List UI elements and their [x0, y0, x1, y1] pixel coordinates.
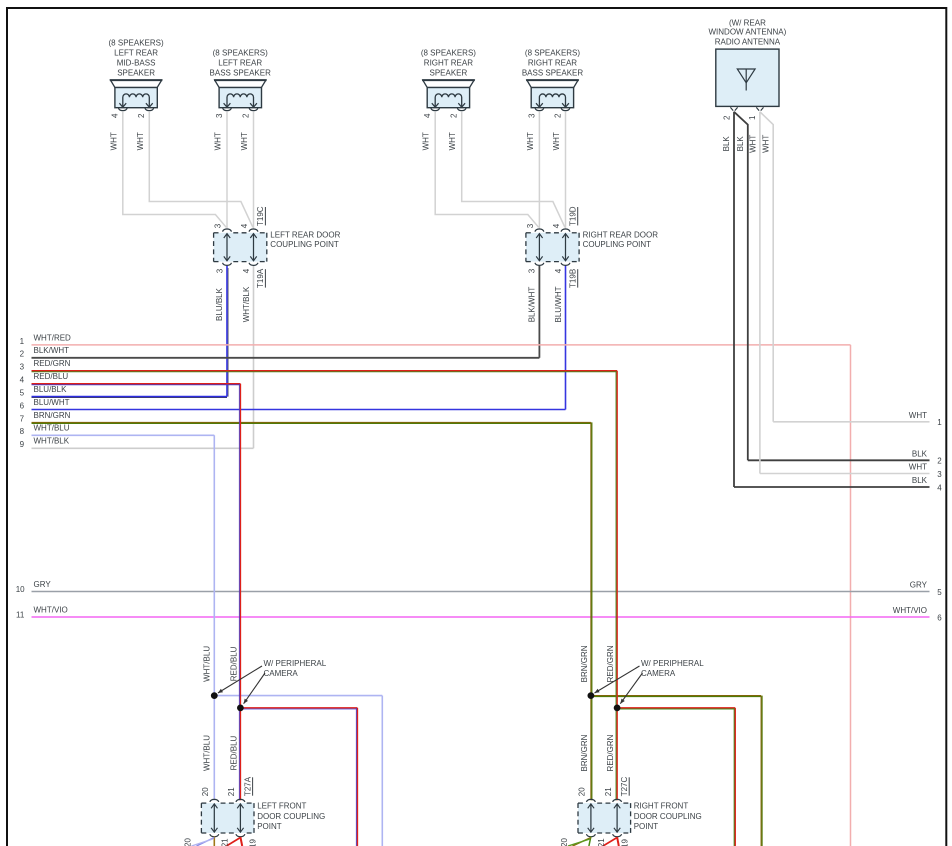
svg-text:19: 19	[621, 839, 630, 846]
svg-text:BLK: BLK	[912, 476, 928, 485]
svg-text:(8 SPEAKERS): (8 SPEAKERS)	[525, 48, 580, 57]
svg-text:WHT: WHT	[552, 132, 561, 150]
svg-text:1: 1	[937, 418, 942, 427]
svg-text:1: 1	[748, 115, 757, 120]
svg-text:RIGHT FRONT: RIGHT FRONT	[634, 802, 689, 811]
svg-text:WHT/BLU: WHT/BLU	[203, 735, 212, 771]
svg-text:WHT/BLU: WHT/BLU	[34, 424, 70, 433]
svg-text:MID-BASS: MID-BASS	[117, 58, 156, 67]
svg-text:BASS SPEAKER: BASS SPEAKER	[522, 68, 584, 77]
svg-text:BLK: BLK	[722, 136, 731, 152]
svg-text:WHT/VIO: WHT/VIO	[34, 605, 68, 614]
svg-text:WHT: WHT	[909, 463, 927, 472]
svg-text:4: 4	[111, 113, 120, 118]
svg-text:WHT: WHT	[748, 135, 757, 153]
svg-text:21: 21	[220, 838, 229, 846]
svg-text:4: 4	[937, 483, 942, 492]
svg-text:WHT: WHT	[109, 132, 118, 150]
svg-text:2: 2	[20, 350, 25, 359]
svg-text:BLU/WHT: BLU/WHT	[34, 398, 70, 407]
svg-text:BLK/WHT: BLK/WHT	[528, 287, 537, 323]
svg-text:8: 8	[20, 427, 25, 436]
svg-text:4: 4	[423, 113, 432, 118]
svg-text:19: 19	[248, 839, 257, 846]
svg-text:T19A: T19A	[256, 268, 265, 288]
svg-text:RIGHT REAR: RIGHT REAR	[528, 58, 577, 67]
svg-text:RED/GRN: RED/GRN	[606, 645, 615, 682]
svg-text:BLU/BLK: BLU/BLK	[215, 287, 224, 321]
svg-text:2: 2	[137, 113, 146, 118]
svg-text:WHT/RED: WHT/RED	[34, 333, 72, 342]
svg-text:LEFT REAR: LEFT REAR	[218, 58, 262, 67]
svg-text:T19D: T19D	[568, 206, 577, 226]
svg-text:GRY: GRY	[910, 581, 928, 590]
svg-text:COUPLING POINT: COUPLING POINT	[583, 240, 652, 249]
svg-text:WINDOW ANTENNA): WINDOW ANTENNA)	[709, 28, 787, 37]
svg-text:3: 3	[215, 113, 224, 118]
svg-text:CAMERA: CAMERA	[264, 669, 299, 678]
svg-text:3: 3	[214, 223, 223, 228]
svg-text:4: 4	[240, 223, 249, 228]
svg-text:5: 5	[20, 389, 25, 398]
svg-text:WHT: WHT	[762, 135, 771, 153]
svg-text:SPEAKER: SPEAKER	[430, 68, 468, 77]
svg-text:4: 4	[552, 223, 561, 228]
svg-text:RED/BLU: RED/BLU	[229, 735, 238, 770]
svg-text:1: 1	[20, 337, 25, 346]
svg-text:21: 21	[227, 787, 236, 796]
svg-text:4: 4	[554, 268, 563, 273]
svg-text:21: 21	[597, 838, 606, 846]
svg-text:5: 5	[937, 588, 942, 597]
svg-text:(8 SPEAKERS): (8 SPEAKERS)	[421, 48, 476, 57]
svg-text:WHT/BLU: WHT/BLU	[203, 646, 212, 682]
svg-text:2: 2	[937, 457, 942, 466]
svg-text:RED/GRN: RED/GRN	[34, 359, 71, 368]
svg-text:LEFT REAR: LEFT REAR	[114, 48, 158, 57]
svg-text:3: 3	[528, 268, 537, 273]
svg-text:4: 4	[20, 376, 25, 385]
svg-text:POINT: POINT	[634, 822, 659, 831]
svg-text:LEFT REAR DOOR: LEFT REAR DOOR	[270, 230, 340, 239]
svg-text:20: 20	[201, 787, 210, 796]
svg-text:DOOR COUPLING: DOOR COUPLING	[634, 812, 702, 821]
svg-text:COUPLING POINT: COUPLING POINT	[270, 240, 339, 249]
svg-text:10: 10	[16, 585, 25, 594]
svg-text:3: 3	[20, 363, 25, 372]
svg-text:WHT: WHT	[136, 132, 145, 150]
svg-text:21: 21	[604, 787, 613, 796]
svg-text:2: 2	[553, 113, 562, 118]
svg-text:WHT: WHT	[448, 132, 457, 150]
svg-text:WHT: WHT	[214, 132, 223, 150]
svg-text:WHT/BLK: WHT/BLK	[242, 286, 251, 322]
svg-text:3: 3	[937, 470, 942, 479]
svg-text:20: 20	[560, 838, 569, 846]
svg-text:SPEAKER: SPEAKER	[117, 68, 155, 77]
svg-text:2: 2	[241, 113, 250, 118]
svg-text:RED/BLU: RED/BLU	[229, 646, 238, 681]
svg-text:11: 11	[16, 610, 25, 619]
svg-text:WHT: WHT	[422, 132, 431, 150]
svg-text:W/ PERIPHERAL: W/ PERIPHERAL	[641, 659, 704, 668]
svg-text:3: 3	[527, 113, 536, 118]
svg-text:BRN/GRN: BRN/GRN	[580, 645, 589, 682]
svg-text:WHT: WHT	[526, 132, 535, 150]
svg-text:WHT: WHT	[240, 132, 249, 150]
svg-text:(8 SPEAKERS): (8 SPEAKERS)	[109, 38, 164, 47]
svg-text:RIGHT REAR DOOR: RIGHT REAR DOOR	[583, 230, 659, 239]
svg-text:T27A: T27A	[243, 776, 252, 796]
svg-text:7: 7	[20, 414, 25, 423]
svg-text:2: 2	[722, 115, 731, 120]
svg-text:BLU/WHT: BLU/WHT	[554, 286, 563, 322]
svg-text:6: 6	[937, 613, 942, 622]
svg-text:BRN/GRN: BRN/GRN	[34, 411, 71, 420]
svg-text:RADIO ANTENNA: RADIO ANTENNA	[715, 37, 781, 46]
svg-text:BLK/WHT: BLK/WHT	[34, 346, 70, 355]
svg-text:W/ PERIPHERAL: W/ PERIPHERAL	[264, 659, 327, 668]
svg-text:T27C: T27C	[620, 776, 629, 796]
svg-text:9: 9	[20, 440, 25, 449]
svg-text:WHT/BLK: WHT/BLK	[34, 437, 70, 446]
svg-text:BLK: BLK	[912, 449, 928, 458]
svg-text:WHT/VIO: WHT/VIO	[893, 606, 927, 615]
svg-text:T19C: T19C	[256, 206, 265, 226]
svg-text:3: 3	[215, 268, 224, 273]
svg-text:3: 3	[526, 223, 535, 228]
svg-text:RIGHT REAR: RIGHT REAR	[424, 58, 473, 67]
svg-text:CAMERA: CAMERA	[641, 669, 676, 678]
svg-text:BASS SPEAKER: BASS SPEAKER	[210, 68, 272, 77]
svg-text:(8 SPEAKERS): (8 SPEAKERS)	[213, 48, 268, 57]
svg-text:T19B: T19B	[568, 269, 577, 288]
svg-text:WHT: WHT	[909, 411, 927, 420]
svg-text:POINT: POINT	[257, 822, 282, 831]
svg-text:(W/ REAR: (W/ REAR	[729, 18, 766, 27]
svg-text:DOOR COUPLING: DOOR COUPLING	[257, 812, 325, 821]
svg-text:GRY: GRY	[34, 580, 52, 589]
svg-text:RED/GRN: RED/GRN	[606, 734, 615, 771]
svg-text:BLK: BLK	[736, 136, 745, 152]
svg-text:20: 20	[183, 838, 192, 846]
svg-text:6: 6	[20, 401, 25, 410]
svg-text:4: 4	[242, 268, 251, 273]
svg-text:BLU/BLK: BLU/BLK	[34, 385, 68, 394]
svg-text:20: 20	[578, 787, 587, 796]
svg-text:2: 2	[450, 113, 459, 118]
svg-text:LEFT FRONT: LEFT FRONT	[257, 802, 306, 811]
svg-text:BRN/GRN: BRN/GRN	[580, 734, 589, 771]
svg-text:RED/BLU: RED/BLU	[34, 372, 69, 381]
